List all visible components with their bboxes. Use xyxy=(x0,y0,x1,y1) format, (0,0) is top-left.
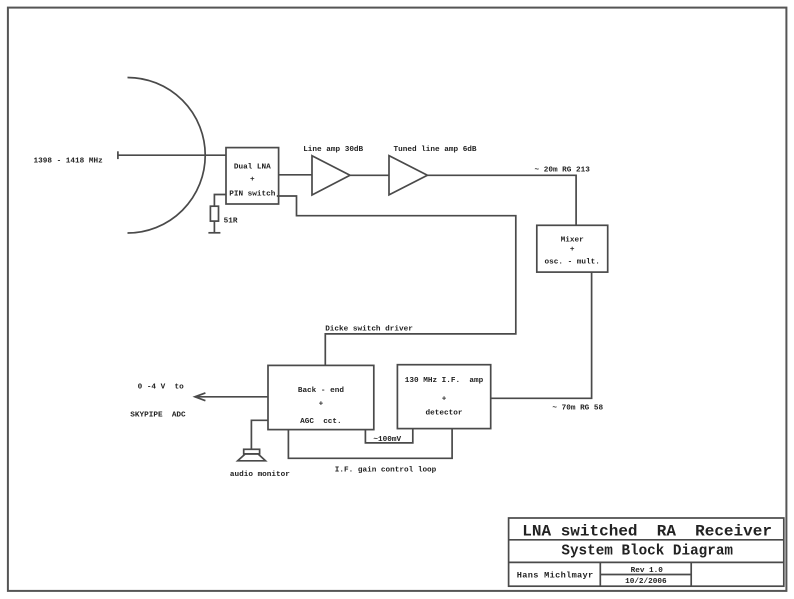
svg-text:System Block Diagram: System Block Diagram xyxy=(561,544,733,560)
svg-text:Dual LNA: Dual LNA xyxy=(234,163,271,171)
block Mixer + osc. - mult. xyxy=(537,225,608,272)
wire between amplifiers xyxy=(350,174,389,176)
svg-text:~100mV: ~100mV xyxy=(373,436,401,444)
speaker audio monitor xyxy=(238,449,266,461)
svg-text:+: + xyxy=(250,176,255,184)
block Back - end + AGC cct. xyxy=(268,365,374,429)
svg-text:audio monitor: audio monitor xyxy=(230,471,290,479)
resistor R1 51R xyxy=(210,206,218,221)
amplifier Tuned line amp 6dB xyxy=(389,156,427,195)
wire tuned amp to mixer (20m RG 213) xyxy=(427,175,576,225)
title block frame xyxy=(509,518,784,586)
amplifier Line amp 30dB xyxy=(312,156,350,195)
svg-text:SKYPIPE ADC: SKYPIPE ADC xyxy=(130,412,186,420)
svg-text:Rev 1.0: Rev 1.0 xyxy=(631,567,664,575)
wire feed to LNA xyxy=(118,154,226,156)
svg-text:osc. - mult.: osc. - mult. xyxy=(545,259,600,267)
wire back-end to speaker xyxy=(251,420,268,449)
svg-text:Line amp 30dB: Line amp 30dB xyxy=(303,146,363,154)
svg-text:Back - end: Back - end xyxy=(298,387,345,395)
svg-text:AGC cct.: AGC cct. xyxy=(300,418,342,426)
block 130 MHz I.F. amp + detector xyxy=(397,365,490,429)
antenna feed terminal xyxy=(117,151,119,159)
svg-text:Mixer: Mixer xyxy=(561,236,584,244)
wire LNA output xyxy=(279,174,312,176)
svg-text:PIN switch: PIN switch xyxy=(229,190,276,198)
svg-text:10/2/2006: 10/2/2006 xyxy=(625,578,667,586)
svg-text:0 -4 V to: 0 -4 V to xyxy=(138,384,185,392)
svg-text:130 MHz I.F. amp: 130 MHz I.F. amp xyxy=(405,377,484,385)
antenna dish xyxy=(128,78,206,234)
ground xyxy=(208,232,220,234)
svg-text:Dicke switch driver: Dicke switch driver xyxy=(325,326,413,334)
svg-text:I.F. gain control loop: I.F. gain control loop xyxy=(335,467,437,475)
svg-text:detector: detector xyxy=(426,410,463,418)
svg-text:~ 20m RG 213: ~ 20m RG 213 xyxy=(535,167,591,175)
wire output to SKYPIPE ADC xyxy=(195,396,268,398)
svg-text:~ 70m RG 58: ~ 70m RG 58 xyxy=(552,404,603,412)
svg-text:51R: 51R xyxy=(224,217,238,225)
wire Dicke switch driver xyxy=(277,196,516,365)
svg-text:+: + xyxy=(319,401,324,409)
wire PIN switch to resistor xyxy=(214,195,225,207)
svg-text:+: + xyxy=(570,246,575,254)
svg-text:LNA switched RA Receiver: LNA switched RA Receiver xyxy=(522,523,772,541)
svg-text:Hans Michlmayr: Hans Michlmayr xyxy=(517,571,594,581)
svg-text:+: + xyxy=(442,396,447,404)
wire detector output ~100mV xyxy=(365,429,412,443)
wire I.F. gain control loop xyxy=(288,429,452,459)
arrowhead xyxy=(195,393,206,401)
svg-text:Tuned line amp 6dB: Tuned line amp 6dB xyxy=(394,146,477,154)
wire resistor to ground xyxy=(213,221,215,233)
block U1 Dual LNA + PIN switch xyxy=(226,148,279,204)
svg-text:1398 - 1418 MHz: 1398 - 1418 MHz xyxy=(34,157,104,165)
wire mixer to IF amp (70m RG 58) xyxy=(491,272,592,398)
